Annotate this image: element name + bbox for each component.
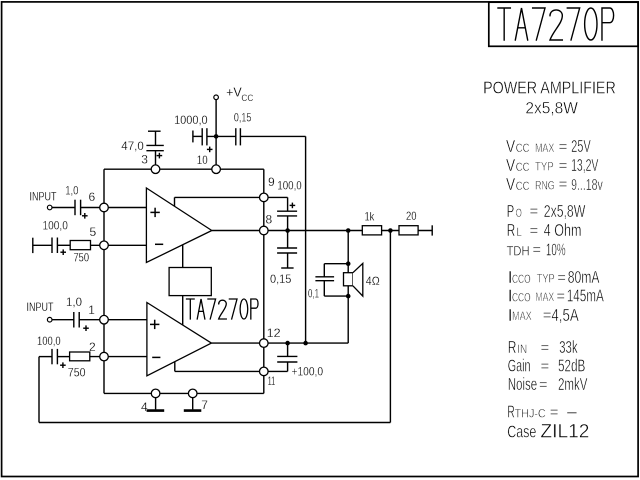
svg-text:4Ω: 4Ω	[366, 274, 380, 288]
svg-text:1,0: 1,0	[66, 295, 82, 309]
svg-text:9: 9	[268, 175, 275, 189]
svg-text:11: 11	[268, 374, 276, 388]
svg-text:R: R	[507, 402, 515, 422]
svg-text:1,0: 1,0	[65, 184, 78, 198]
svg-text:145mA: 145mA	[567, 286, 604, 306]
svg-text:V: V	[506, 174, 515, 194]
svg-text:4: 4	[141, 400, 148, 414]
svg-text:–: –	[567, 402, 577, 422]
svg-text:1000,0: 1000,0	[174, 113, 208, 127]
svg-text:=: =	[556, 288, 565, 305]
svg-text:100,0: 100,0	[277, 179, 302, 193]
svg-text:MAX: MAX	[512, 309, 532, 323]
svg-text:33k: 33k	[559, 337, 578, 357]
svg-text:Gain: Gain	[508, 356, 531, 376]
svg-text:5: 5	[90, 225, 97, 239]
svg-text:52dB: 52dB	[558, 356, 585, 376]
svg-text:=: =	[543, 307, 552, 324]
svg-text:CCO: CCO	[512, 272, 531, 286]
svg-text:2: 2	[89, 340, 96, 354]
svg-text:13,2V: 13,2V	[571, 155, 598, 175]
svg-text:8: 8	[266, 213, 273, 227]
svg-text:=: =	[530, 222, 539, 239]
svg-text:CC: CC	[516, 160, 530, 174]
svg-text:+100,0: +100,0	[292, 365, 324, 379]
svg-text:CC: CC	[516, 141, 530, 155]
svg-text:0,15: 0,15	[270, 272, 292, 286]
svg-text:3: 3	[141, 153, 148, 167]
svg-text:CCO: CCO	[512, 291, 531, 305]
svg-text:TYP: TYP	[537, 272, 555, 286]
svg-text:750: 750	[68, 366, 86, 380]
svg-text:=: =	[541, 339, 550, 356]
svg-text:10: 10	[197, 153, 208, 167]
svg-text:=: =	[541, 358, 550, 375]
svg-text:TYP: TYP	[535, 160, 554, 174]
svg-text:CC: CC	[241, 93, 253, 103]
svg-text:R: R	[508, 337, 517, 357]
svg-text:TDH: TDH	[507, 243, 530, 258]
svg-text:V: V	[506, 155, 515, 175]
svg-text:THJ-C: THJ-C	[515, 406, 546, 420]
svg-text:=: =	[559, 139, 568, 156]
svg-text:0,15: 0,15	[234, 111, 252, 125]
svg-text:9...18v: 9...18v	[571, 177, 603, 194]
svg-text:750: 750	[74, 250, 90, 264]
svg-text:=: =	[550, 404, 559, 421]
svg-text:+V: +V	[226, 86, 242, 100]
svg-text:25V: 25V	[571, 136, 591, 156]
svg-text:L: L	[516, 225, 522, 239]
svg-text:Noise: Noise	[508, 374, 538, 394]
svg-text:4,5A: 4,5A	[551, 305, 579, 325]
svg-text:2x5,8W: 2x5,8W	[544, 201, 586, 221]
svg-text:1k: 1k	[365, 209, 376, 223]
svg-text:MAX: MAX	[535, 141, 554, 155]
svg-text:12: 12	[267, 326, 281, 340]
svg-text:P: P	[507, 201, 515, 221]
svg-text:=: =	[532, 242, 541, 259]
svg-text:6: 6	[89, 190, 96, 204]
svg-text:INPUT: INPUT	[27, 300, 55, 314]
svg-text:V: V	[506, 136, 515, 156]
svg-text:CC: CC	[516, 179, 530, 193]
svg-text:100,0: 100,0	[37, 334, 61, 348]
svg-text:ZIL12: ZIL12	[540, 421, 589, 442]
svg-text:=: =	[539, 377, 548, 394]
svg-text:2mkV: 2mkV	[558, 374, 588, 394]
svg-text:100,0: 100,0	[43, 218, 69, 232]
svg-text:80mA: 80mA	[568, 267, 600, 287]
svg-text:=: =	[530, 203, 539, 220]
svg-text:4 Ohm: 4 Ohm	[544, 220, 582, 240]
svg-text:O: O	[516, 206, 522, 220]
svg-text:=: =	[559, 157, 568, 174]
svg-text:=: =	[559, 176, 568, 193]
svg-text:IN: IN	[517, 342, 527, 356]
svg-text:=: =	[557, 269, 566, 286]
svg-text:2x5,8W: 2x5,8W	[525, 99, 578, 117]
svg-text:MAX: MAX	[535, 290, 554, 304]
svg-text:10%: 10%	[546, 239, 566, 259]
svg-text:47,0: 47,0	[121, 139, 144, 153]
svg-text:1: 1	[88, 303, 95, 317]
svg-text:INPUT: INPUT	[30, 189, 58, 203]
svg-text:RNG: RNG	[535, 179, 555, 193]
svg-text:20: 20	[406, 209, 417, 223]
svg-text:R: R	[507, 220, 516, 240]
svg-text:POWER AMPLIFIER: POWER AMPLIFIER	[483, 78, 616, 98]
svg-text:Case: Case	[507, 421, 536, 441]
svg-text:0,1: 0,1	[308, 286, 319, 300]
svg-text:7: 7	[201, 398, 208, 412]
